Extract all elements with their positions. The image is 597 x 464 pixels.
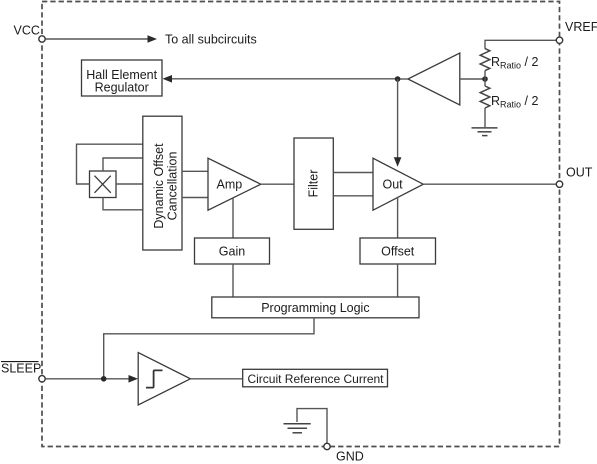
wire buffer output down to Out amp bbox=[397, 79, 399, 158]
wire Out to Offset bbox=[397, 197, 399, 238]
junction at buffer output bbox=[395, 76, 401, 82]
Schmitt trigger bbox=[138, 353, 190, 405]
wires Filter to Out bbox=[333, 172, 373, 174]
box Offset bbox=[360, 238, 436, 264]
wire buffer input from divider node bbox=[460, 78, 485, 80]
wire buffer tip to junction bbox=[396, 78, 408, 80]
box Dynamic Offset Cancellation bbox=[143, 116, 182, 250]
wire Gain to Programming Logic bbox=[232, 264, 234, 297]
pin VREF bbox=[556, 20, 597, 44]
wire Out to OUT pin bbox=[423, 183, 556, 185]
arrowhead to all subcircuits bbox=[148, 35, 158, 43]
svg-text:Amp: Amp bbox=[217, 178, 243, 192]
ground (bottom) bbox=[284, 424, 311, 433]
wire hall right to DOC bbox=[116, 183, 143, 185]
svg-text:SLEEP: SLEEP bbox=[1, 361, 41, 375]
wire VCC to all subcircuits bbox=[46, 38, 149, 40]
pin VCC bbox=[14, 24, 46, 43]
resistor R_Ratio/2 bottom bbox=[480, 86, 490, 108]
svg-text:To all subcircuits: To all subcircuits bbox=[165, 32, 257, 46]
arrowhead into Schmitt trigger bbox=[129, 375, 139, 383]
svg-text:Offset: Offset bbox=[381, 245, 415, 259]
svg-text:Programming Logic: Programming Logic bbox=[261, 301, 369, 315]
wire hall bottom to DOC bbox=[103, 198, 143, 210]
buffer amplifier (VREF divider follower) bbox=[408, 53, 460, 105]
svg-text:VREF: VREF bbox=[565, 20, 597, 34]
wire Schmitt to Circuit Reference Current bbox=[190, 378, 242, 380]
svg-text:Circuit Reference Current: Circuit Reference Current bbox=[247, 372, 384, 386]
svg-text:Cancellation: Cancellation bbox=[166, 152, 180, 221]
wire divider to ground bbox=[484, 108, 486, 127]
wire Programming Logic to sleep node bbox=[104, 318, 314, 379]
box Programming Logic bbox=[212, 297, 419, 318]
svg-text:Filter: Filter bbox=[307, 170, 321, 198]
wire Offset to Programming Logic bbox=[397, 264, 399, 297]
pin GND bbox=[324, 443, 364, 463]
pin OUT bbox=[556, 166, 592, 188]
arrowhead into Hall Element Regulator bbox=[163, 75, 173, 83]
wire buffer output to Hall Element Regulator bbox=[172, 78, 398, 80]
svg-text:VCC: VCC bbox=[14, 24, 40, 38]
op-amp Out bbox=[373, 158, 423, 210]
svg-text:GND: GND bbox=[336, 449, 364, 463]
junction divider node bbox=[482, 76, 488, 82]
resistor R_Ratio/2 top bbox=[480, 49, 490, 71]
pin SLEEP bbox=[1, 361, 45, 382]
junction at sleep node bbox=[101, 376, 107, 382]
wires DOC to Amp bbox=[182, 170, 208, 172]
hall element bbox=[90, 171, 117, 198]
wire Amp to Gain bbox=[232, 198, 234, 238]
wire hall left loop to DOC bbox=[77, 144, 143, 184]
wire SLEEP to Schmitt trigger bbox=[46, 378, 130, 380]
svg-text:Out: Out bbox=[383, 178, 404, 192]
box Gain bbox=[195, 238, 270, 264]
svg-text:Regulator: Regulator bbox=[95, 81, 149, 95]
box Hall Element Regulator bbox=[82, 60, 163, 96]
wire between resistors bbox=[484, 71, 486, 86]
svg-text:OUT: OUT bbox=[566, 166, 593, 180]
wire hall top to DOC bbox=[103, 158, 143, 171]
svg-text:RRatio / 2: RRatio / 2 bbox=[491, 55, 538, 71]
wire GND pin to ground symbol bbox=[297, 409, 327, 444]
svg-text:Gain: Gain bbox=[219, 245, 245, 259]
wire Amp to Filter bbox=[261, 183, 294, 185]
svg-text:Dynamic Offset: Dynamic Offset bbox=[152, 143, 166, 229]
ground (divider) bbox=[472, 128, 498, 136]
op-amp Amp bbox=[208, 158, 261, 210]
box Filter bbox=[294, 138, 333, 229]
arrowhead down into Out amp bbox=[394, 157, 402, 167]
box Circuit Reference Current bbox=[243, 369, 388, 387]
svg-text:RRatio / 2: RRatio / 2 bbox=[491, 94, 538, 110]
wire VREF pin to divider top bbox=[485, 40, 556, 49]
